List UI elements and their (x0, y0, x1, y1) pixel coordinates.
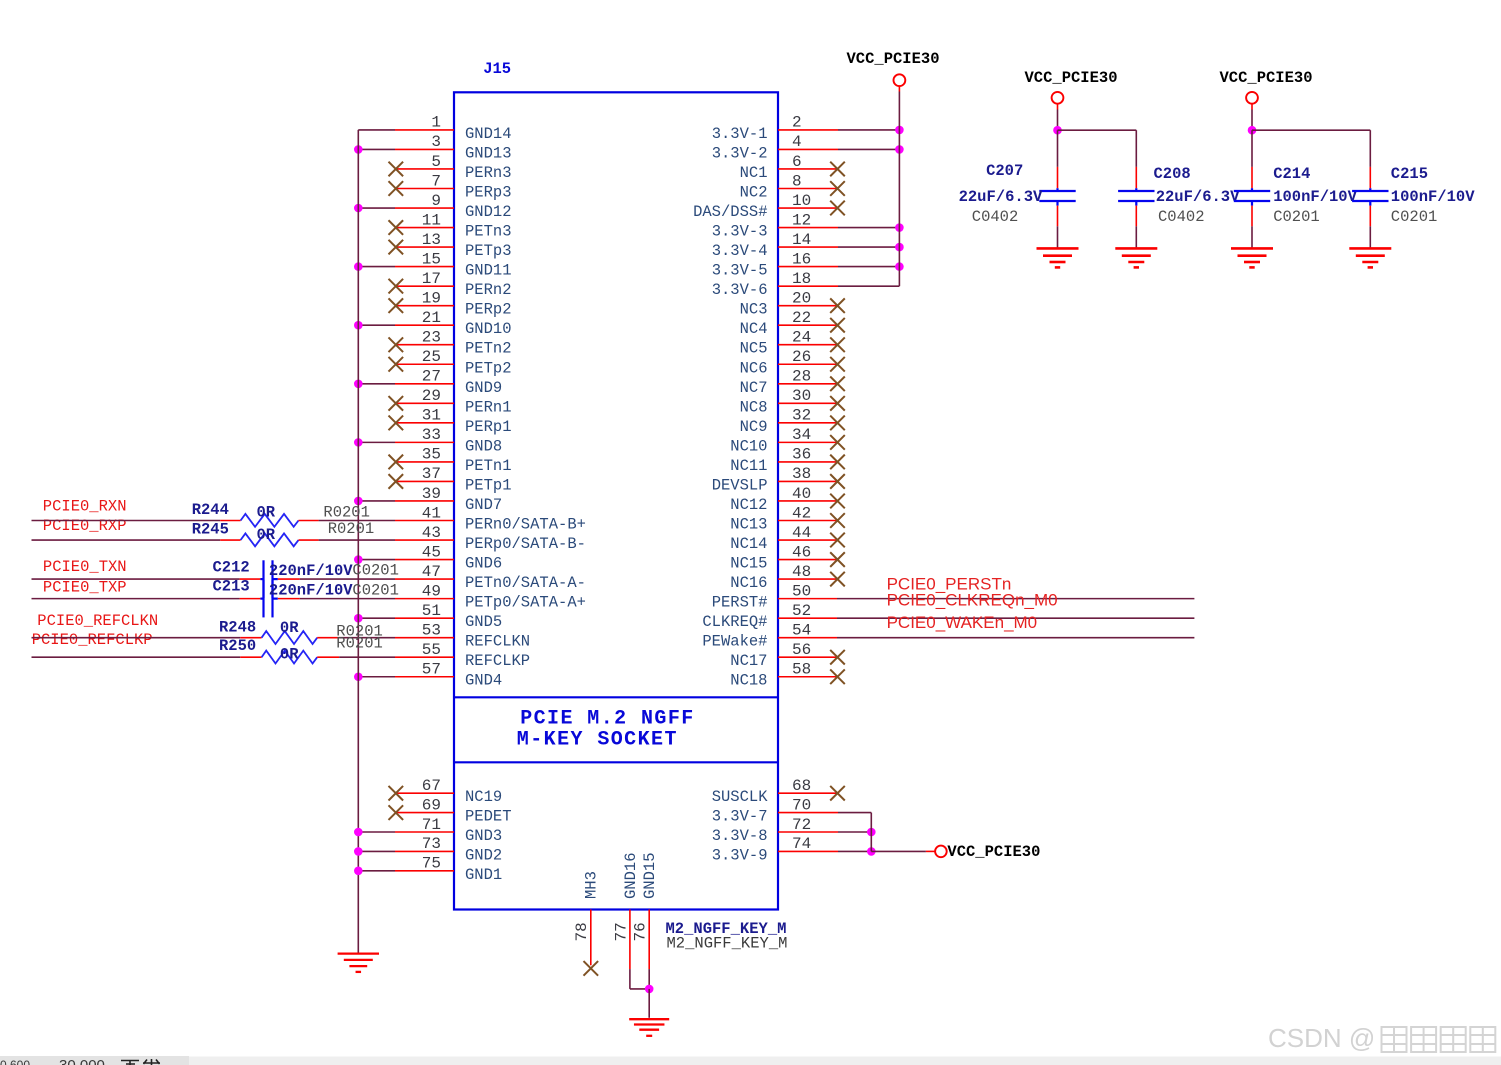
svg-text:SUSCLK: SUSCLK (712, 788, 769, 806)
svg-text:C212: C212 (213, 558, 250, 576)
svg-text:8: 8 (792, 172, 802, 190)
net label PCIE0_WAKEn_M0 (887, 613, 1038, 632)
svg-text:74: 74 (792, 835, 811, 853)
svg-text:GND2: GND2 (465, 846, 502, 864)
svg-text:31: 31 (422, 407, 441, 425)
svg-text:36: 36 (792, 446, 811, 464)
net label PCIE0_TXP (43, 579, 127, 597)
svg-text:220nF/10V: 220nF/10V (269, 582, 353, 600)
svg-text:NC9: NC9 (740, 418, 768, 436)
pin 33 GND8 (354, 426, 502, 455)
svg-text:GND10: GND10 (465, 320, 512, 338)
pin 8 NC2 (740, 172, 845, 201)
svg-text:PERn1: PERn1 (465, 398, 512, 416)
svg-text:NC16: NC16 (730, 574, 767, 592)
svg-text:78: 78 (573, 922, 591, 941)
svg-text:DAS/DSS#: DAS/DSS# (693, 203, 767, 221)
svg-text:VCC_PCIE30: VCC_PCIE30 (1220, 69, 1313, 87)
svg-text:28: 28 (792, 368, 811, 386)
pin 12 3.3V-3 (712, 211, 904, 240)
pin 78 MH3 (573, 871, 601, 976)
svg-text:R245: R245 (192, 520, 229, 538)
pin 4 3.3V-2 (712, 133, 904, 162)
svg-text:VCC_PCIE30: VCC_PCIE30 (847, 50, 940, 68)
wire C207-C208 (1058, 130, 1137, 167)
svg-text:PCIE0_TXP: PCIE0_TXP (43, 579, 127, 597)
svg-text:52: 52 (792, 602, 811, 620)
svg-text:67: 67 (422, 777, 441, 795)
power symbol VCC_PCIE30 top2 (1025, 69, 1118, 130)
svg-text:PERn0/SATA-B+: PERn0/SATA-B+ (465, 516, 586, 534)
svg-text:R0201: R0201 (336, 635, 383, 653)
svg-text:PCIE0_WAKEn_M0: PCIE0_WAKEn_M0 (887, 613, 1038, 632)
svg-text:REFCLKN: REFCLKN (465, 633, 530, 651)
svg-text:PCIE0_REFCLKN: PCIE0_REFCLKN (37, 612, 158, 630)
pin 58 NC18 (730, 661, 845, 690)
svg-text:41: 41 (422, 504, 441, 522)
svg-text:0R: 0R (280, 619, 299, 637)
svg-text:0R: 0R (257, 526, 276, 544)
svg-text:0.600: 0.600 (0, 1058, 30, 1065)
pin 31 PERp1 (389, 407, 512, 436)
svg-text:3.3V-4: 3.3V-4 (712, 242, 768, 260)
svg-text:PERn3: PERn3 (465, 164, 512, 182)
pin 51 GND5 (354, 602, 502, 631)
svg-text:PETp0/SATA-A+: PETp0/SATA-A+ (465, 594, 586, 612)
svg-text:17: 17 (422, 270, 441, 288)
capacitor C213 220nF/10V (32, 578, 399, 618)
svg-text:3: 3 (431, 133, 441, 151)
svg-text:REFCLKP: REFCLKP (465, 652, 530, 670)
pin 69 PEDET (389, 796, 512, 825)
pin 1 GND14 (358, 114, 511, 143)
svg-text:C214: C214 (1273, 165, 1310, 183)
net label PCIE0_REFCLKP (32, 631, 153, 649)
pin 75 GND1 (354, 855, 502, 884)
svg-text:39: 39 (422, 485, 441, 503)
svg-text:C215: C215 (1391, 165, 1428, 183)
ground symbol left (338, 954, 379, 972)
pin 11 PETn3 (389, 211, 512, 240)
svg-text:NC7: NC7 (740, 379, 768, 397)
svg-text:PCIE0_REFCLKP: PCIE0_REFCLKP (32, 631, 153, 649)
svg-text:C213: C213 (213, 578, 250, 596)
pin 72 3.3V-8 (712, 816, 876, 845)
pin 20 NC3 (740, 289, 845, 318)
svg-text:PCIE0_TXN: PCIE0_TXN (43, 558, 127, 576)
pin 54 PEWake# (702, 621, 1194, 650)
pin 7 PERp3 (389, 172, 512, 201)
pin 77 GND16 (612, 852, 649, 988)
net label PCIE0_REFCLKN (37, 612, 158, 630)
svg-text:GND6: GND6 (465, 555, 502, 573)
svg-text:VCC_PCIE30: VCC_PCIE30 (1025, 69, 1118, 87)
svg-text:45: 45 (422, 543, 441, 561)
svg-text:PETp1: PETp1 (465, 476, 512, 494)
svg-text:C0402: C0402 (1158, 208, 1205, 226)
svg-text:3.3V-2: 3.3V-2 (712, 144, 768, 162)
svg-text:3.3V-9: 3.3V-9 (712, 846, 768, 864)
label M2_NGFF_KEY_M gray (667, 935, 788, 953)
svg-text:75: 75 (422, 855, 441, 873)
svg-text:GND1: GND1 (465, 866, 502, 884)
pin 55 REFCLKP (395, 641, 530, 670)
net label PCIE0_RXN (43, 498, 127, 516)
svg-text:GND14: GND14 (465, 125, 512, 143)
ground symbol bottom (629, 1019, 669, 1036)
svg-text:PETn2: PETn2 (465, 340, 512, 358)
svg-text:GND9: GND9 (465, 379, 502, 397)
svg-text:16: 16 (792, 250, 811, 268)
svg-text:3.3V-6: 3.3V-6 (712, 281, 768, 299)
svg-text:9: 9 (431, 192, 441, 210)
svg-text:6: 6 (792, 153, 802, 171)
svg-text:GND15: GND15 (641, 852, 659, 899)
svg-text:MH3: MH3 (583, 871, 601, 899)
svg-text:GND7: GND7 (465, 496, 502, 514)
svg-text:14: 14 (792, 231, 811, 249)
svg-text:NC5: NC5 (740, 340, 768, 358)
svg-text:5: 5 (431, 153, 441, 171)
svg-text:29: 29 (422, 387, 441, 405)
pin 41 PERn0/SATA-B+ (395, 504, 586, 533)
pin 53 REFCLKN (395, 621, 530, 650)
resistor R248 0R (32, 618, 396, 644)
svg-text:220nF/10V: 220nF/10V (269, 562, 353, 580)
pin 16 3.3V-5 (712, 250, 904, 279)
svg-text:GND11: GND11 (465, 262, 512, 280)
svg-text:NC12: NC12 (730, 496, 767, 514)
pin 13 PETp3 (389, 231, 512, 260)
svg-text:NC14: NC14 (730, 535, 767, 553)
svg-text:7: 7 (431, 172, 441, 190)
pin 73 GND2 (354, 835, 502, 864)
wire bottom right vcc bus (870, 813, 872, 852)
svg-text:56: 56 (792, 641, 811, 659)
svg-text:72: 72 (792, 816, 811, 834)
svg-text:25: 25 (422, 348, 441, 366)
pin 3 GND13 (354, 133, 512, 162)
pin 10 DAS/DSS# (693, 192, 845, 221)
pin 22 NC4 (740, 309, 845, 338)
junction C207 (1053, 126, 1062, 135)
svg-text:23: 23 (422, 329, 441, 347)
pin 68 SUSCLK (712, 777, 845, 806)
pin 30 NC8 (740, 387, 845, 416)
junction C214 (1248, 126, 1257, 135)
pin 6 NC1 (740, 153, 845, 182)
svg-text:PERp3: PERp3 (465, 183, 512, 201)
pin 67 NC19 (389, 777, 503, 806)
svg-text:NC2: NC2 (740, 183, 768, 201)
pin 56 NC17 (730, 641, 845, 670)
svg-text:PERp2: PERp2 (465, 301, 512, 319)
pin 35 PETn1 (389, 446, 512, 475)
svg-text:3.3V-3: 3.3V-3 (712, 223, 768, 241)
title PCIE M.2 NGFF M-KEY SOCKET (517, 707, 695, 751)
svg-text:0R: 0R (257, 504, 276, 522)
pin 48 NC16 (730, 563, 845, 592)
svg-text:30: 30 (792, 387, 811, 405)
svg-text:PCIE0_CLKREQn_M0: PCIE0_CLKREQn_M0 (887, 591, 1058, 610)
svg-text:M2_NGFF_KEY_M: M2_NGFF_KEY_M (667, 935, 788, 953)
svg-text:C0201: C0201 (1391, 208, 1438, 226)
svg-text:NC6: NC6 (740, 359, 768, 377)
pin 42 NC13 (730, 504, 845, 533)
svg-text:53: 53 (422, 621, 441, 639)
svg-text:44: 44 (792, 524, 811, 542)
junction GND15/GND16 (645, 985, 654, 994)
connector J15 body (454, 92, 778, 909)
svg-text:PERn2: PERn2 (465, 281, 512, 299)
svg-text:PETp3: PETp3 (465, 242, 512, 260)
pin 49 PETp0/SATA-A+ (395, 582, 586, 611)
pin 24 NC5 (740, 329, 845, 358)
wire right vcc bus (898, 92, 900, 287)
svg-text:PETp2: PETp2 (465, 359, 512, 377)
svg-text:GND3: GND3 (465, 827, 502, 845)
svg-text:R250: R250 (219, 637, 256, 655)
svg-text:NC4: NC4 (740, 320, 768, 338)
svg-text:NC10: NC10 (730, 437, 767, 455)
svg-text:GND13: GND13 (465, 144, 512, 162)
svg-text:J15: J15 (483, 60, 511, 78)
svg-text:100nF/10V: 100nF/10V (1391, 188, 1475, 206)
capacitor C214 100nF/10V (1234, 165, 1358, 248)
svg-text:30.000: 30.000 (59, 1057, 105, 1065)
svg-text:GND16: GND16 (622, 852, 640, 899)
pin 18 3.3V-6 (712, 270, 900, 299)
pin 28 NC7 (740, 368, 845, 397)
pin 71 GND3 (354, 816, 502, 845)
svg-text:54: 54 (792, 621, 811, 639)
capacitor C208 22uF/6.3V (1118, 165, 1240, 248)
svg-text:M-KEY SOCKET: M-KEY SOCKET (517, 728, 678, 751)
pin 19 PERp2 (389, 289, 512, 318)
label M2_NGFF_KEY_M (666, 920, 787, 938)
svg-text:12: 12 (792, 211, 811, 229)
svg-text:PETn0/SATA-A-: PETn0/SATA-A- (465, 574, 586, 592)
svg-text:18: 18 (792, 270, 811, 288)
pin 21 GND10 (354, 309, 512, 338)
svg-text:73: 73 (422, 835, 441, 853)
svg-text:NC15: NC15 (730, 555, 767, 573)
svg-text:51: 51 (422, 602, 441, 620)
svg-text:R0201: R0201 (328, 520, 375, 538)
svg-text:NC3: NC3 (740, 301, 768, 319)
pin 29 PERn1 (389, 387, 512, 416)
svg-text:PETn1: PETn1 (465, 457, 512, 475)
svg-text:PERp1: PERp1 (465, 418, 512, 436)
pin 37 PETp1 (389, 465, 512, 494)
capacitor C215 100nF/10V (1352, 165, 1475, 248)
wire to bottom ground (648, 989, 650, 1018)
pin 2 3.3V-1 (712, 114, 904, 143)
svg-text:NC8: NC8 (740, 398, 768, 416)
pin 36 NC11 (730, 446, 845, 475)
pin 46 NC15 (730, 543, 845, 572)
pin 52 CLKREQ# (702, 602, 1194, 631)
designator J15 (483, 60, 511, 78)
svg-text:15: 15 (422, 250, 441, 268)
svg-text:VCC_PCIE30: VCC_PCIE30 (947, 843, 1040, 861)
pin 40 NC12 (730, 485, 845, 514)
svg-text:11: 11 (422, 211, 441, 229)
svg-text:3.3V-7: 3.3V-7 (712, 808, 768, 826)
svg-text:20: 20 (792, 289, 811, 307)
pin 25 PETp2 (389, 348, 512, 377)
svg-text:GND8: GND8 (465, 437, 502, 455)
svg-text:77: 77 (612, 922, 630, 941)
pin 44 NC14 (730, 524, 845, 553)
pin 27 GND9 (354, 368, 502, 397)
svg-text:3.3V-5: 3.3V-5 (712, 262, 768, 280)
net label PCIE0_TXN (43, 558, 127, 576)
pin 26 NC6 (740, 348, 845, 377)
svg-text:C0201: C0201 (1273, 208, 1320, 226)
svg-text:19: 19 (422, 289, 441, 307)
svg-text:C208: C208 (1154, 165, 1191, 183)
power symbol VCC_PCIE30 top3 (1220, 69, 1313, 130)
capacitor C207 22uF/6.3V (959, 162, 1076, 248)
svg-text:47: 47 (422, 563, 441, 581)
pin 50 PERST# (712, 582, 1195, 611)
svg-text:2: 2 (792, 114, 802, 132)
pin 5 PERn3 (389, 153, 512, 182)
svg-text:4: 4 (792, 133, 802, 151)
pin 38 DEVSLP (712, 465, 845, 494)
resistor R244 0R (32, 501, 396, 527)
wire left GND bus (357, 130, 359, 953)
pin 14 3.3V-4 (712, 231, 904, 260)
watermark CSDN (1268, 1023, 1495, 1053)
svg-text:46: 46 (792, 543, 811, 561)
svg-text:55: 55 (422, 641, 441, 659)
svg-text:PETn3: PETn3 (465, 223, 512, 241)
svg-text:24: 24 (792, 329, 811, 347)
svg-text:GND5: GND5 (465, 613, 502, 631)
svg-text:48: 48 (792, 563, 811, 581)
pin 39 GND7 (354, 485, 502, 514)
svg-text:42: 42 (792, 504, 811, 522)
wire C214-C215 (1252, 130, 1370, 167)
svg-text:NC19: NC19 (465, 788, 502, 806)
svg-text:100nF/10V: 100nF/10V (1273, 188, 1357, 206)
svg-text:PEWake#: PEWake# (702, 633, 767, 651)
pin 17 PERn2 (389, 270, 512, 299)
resistor R250 0R (32, 635, 396, 664)
net label PCIE0_PERSTn (887, 575, 1012, 594)
svg-text:GND4: GND4 (465, 672, 502, 690)
svg-text:71: 71 (422, 816, 441, 834)
svg-text:C0201: C0201 (352, 582, 399, 600)
svg-text:58: 58 (792, 661, 811, 679)
svg-text:PCIE M.2 NGFF: PCIE M.2 NGFF (520, 707, 695, 730)
svg-text:PERp0/SATA-B-: PERp0/SATA-B- (465, 535, 586, 553)
pin 15 GND11 (354, 250, 512, 279)
net label PCIE0_CLKREQn_M0 (887, 591, 1058, 610)
svg-text:68: 68 (792, 777, 811, 795)
svg-text:22uF/6.3V: 22uF/6.3V (959, 188, 1043, 206)
svg-text:27: 27 (422, 368, 441, 386)
svg-text:NC13: NC13 (730, 516, 767, 534)
net label PCIE0_RXP (43, 517, 127, 535)
svg-text:CLKREQ#: CLKREQ# (702, 613, 767, 631)
pin 47 PETn0/SATA-A- (395, 563, 586, 592)
svg-text:69: 69 (422, 796, 441, 814)
pin 23 PETn2 (389, 329, 512, 358)
svg-text:PEDET: PEDET (465, 808, 512, 826)
svg-text:22uF/6.3V: 22uF/6.3V (1156, 188, 1240, 206)
svg-text:26: 26 (792, 348, 811, 366)
svg-text:32: 32 (792, 407, 811, 425)
pin 57 GND4 (354, 661, 502, 690)
svg-text:PERST#: PERST# (712, 594, 768, 612)
svg-text:NC17: NC17 (730, 652, 767, 670)
power symbol VCC_PCIE30 top1 (847, 50, 940, 92)
svg-text:40: 40 (792, 485, 811, 503)
svg-text:37: 37 (422, 465, 441, 483)
svg-text:21: 21 (422, 309, 441, 327)
status bar (0, 1056, 1501, 1065)
pin 76 GND15 (632, 852, 659, 988)
svg-text:43: 43 (422, 524, 441, 542)
svg-text:49: 49 (422, 582, 441, 600)
pin 32 NC9 (740, 407, 845, 436)
svg-text:57: 57 (422, 661, 441, 679)
capacitor C212 220nF/10V (32, 558, 399, 597)
ground symbol C214 (1231, 248, 1273, 267)
svg-text:76: 76 (632, 922, 650, 941)
svg-text:R248: R248 (219, 618, 256, 636)
svg-text:GND12: GND12 (465, 203, 512, 221)
svg-text:DEVSLP: DEVSLP (712, 476, 768, 494)
svg-text:70: 70 (792, 796, 811, 814)
pin 9 GND12 (354, 192, 512, 221)
svg-text:3.3V-1: 3.3V-1 (712, 125, 768, 143)
svg-text:NC18: NC18 (730, 672, 767, 690)
svg-text:0R: 0R (280, 646, 299, 664)
svg-text:22: 22 (792, 309, 811, 327)
svg-text:C207: C207 (986, 162, 1023, 180)
resistor R245 0R (32, 520, 396, 546)
svg-text:13: 13 (422, 231, 441, 249)
svg-text:3.3V-8: 3.3V-8 (712, 827, 768, 845)
pin 45 GND6 (354, 543, 502, 572)
svg-text:38: 38 (792, 465, 811, 483)
pin 74 3.3V-9 (712, 835, 876, 864)
svg-text:10: 10 (792, 192, 811, 210)
ground symbol C215 (1349, 248, 1391, 267)
svg-text:NC1: NC1 (740, 164, 768, 182)
svg-text:PCIE0_RXN: PCIE0_RXN (43, 498, 127, 516)
ground symbol C207 (1037, 248, 1079, 267)
svg-text:NC11: NC11 (730, 457, 767, 475)
svg-text:33: 33 (422, 426, 441, 444)
svg-text:34: 34 (792, 426, 811, 444)
power symbol VCC_PCIE30 bottom (871, 843, 1040, 861)
ground symbol C208 (1115, 248, 1157, 267)
svg-text:C0201: C0201 (352, 562, 399, 580)
svg-text:R0201: R0201 (323, 504, 370, 522)
svg-text:R244: R244 (192, 501, 229, 519)
svg-text:CSDN @: CSDN @ (1268, 1023, 1375, 1053)
pin 43 PERp0/SATA-B- (395, 524, 586, 553)
svg-text:1: 1 (431, 114, 441, 132)
pin 70 3.3V-7 (712, 796, 872, 825)
pin 34 NC10 (730, 426, 845, 455)
svg-text:50: 50 (792, 582, 811, 600)
